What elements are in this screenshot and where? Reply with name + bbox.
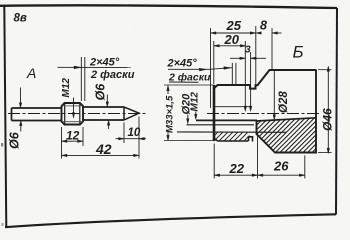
svg-text:A: A: [26, 65, 36, 81]
svg-text:42: 42: [95, 141, 112, 157]
border frame left: [4, 6, 6, 227]
centerline of part Б: [207, 113, 321, 115]
hatching of threaded section: [214, 132, 250, 141]
svg-text:M33×1,5: M33×1,5: [165, 95, 176, 133]
dimension M33x1.5: [165, 85, 176, 140]
border frame bottom: [5, 214, 336, 227]
svg-text:2×45°: 2×45°: [167, 58, 198, 70]
svg-text:10: 10: [128, 127, 141, 139]
dimension 20: [214, 32, 246, 85]
svg-text:Ø46: Ø46: [321, 108, 335, 131]
svg-text:M12: M12: [190, 92, 201, 112]
bore step line: [177, 131, 287, 133]
svg-text:25: 25: [226, 18, 242, 33]
dimension 8: [256, 19, 282, 71]
thread minor lines: [62, 106, 83, 122]
svg-text:8: 8: [260, 19, 267, 33]
dimension Ø6 left: [8, 88, 23, 150]
svg-text:Ø6: Ø6: [8, 131, 22, 149]
part Б bottom thread edge: [218, 137, 253, 142]
dimension 3 with extension leaders: [230, 41, 266, 112]
svg-text:2 фаски: 2 фаски: [90, 69, 135, 81]
hatching of right section wedge: [257, 118, 317, 153]
part A left shaft Ø6: [12, 108, 62, 121]
dimension 26: [258, 156, 305, 179]
dimension Ø46: [318, 66, 335, 154]
part A cone tip: [124, 107, 139, 120]
label M12 with leader: [61, 78, 75, 118]
svg-text:22: 22: [229, 161, 245, 176]
dimension 22: [214, 134, 257, 179]
thread chamfer lines: [65, 103, 80, 124]
bore edge line (Ø28): [257, 118, 317, 121]
part A right shaft Ø6: [83, 107, 124, 120]
svg-text:12: 12: [66, 129, 80, 143]
svg-text:M12: M12: [61, 78, 72, 98]
chamfer callout 2x45 part A: [58, 57, 135, 102]
label Ø28 with leader: [273, 71, 290, 121]
part Б left face: [213, 85, 216, 141]
border frame right: [336, 8, 337, 215]
svg-text:Ø28: Ø28: [278, 91, 290, 113]
svg-text:3: 3: [245, 45, 251, 56]
label Ø20 with leader: [181, 93, 193, 124]
hole line M12 lower thick: [196, 119, 257, 121]
ink speck left margin 1: [1, 143, 3, 147]
ink speck left margin 2: [2, 223, 4, 226]
part A thread M12 body: [62, 103, 84, 125]
dimension Ø6 right: [94, 83, 110, 129]
svg-text:Б: Б: [293, 43, 304, 62]
border frame top: [0, 5, 337, 8]
svg-text:8в: 8в: [14, 13, 27, 25]
dimension 12: [62, 127, 84, 159]
label M12 with leader: [190, 92, 201, 120]
svg-text:2×45°: 2×45°: [89, 57, 120, 69]
svg-text:20: 20: [224, 32, 240, 47]
dimension 25: [211, 18, 256, 108]
part Б outline: [214, 70, 317, 89]
M33 extension lines: [164, 84, 213, 86]
hole line M12 upper: [214, 106, 250, 108]
svg-text:Ø6: Ø6: [94, 83, 108, 101]
dimension 10: [116, 117, 147, 159]
hole line Ø20: [187, 124, 255, 126]
chamfer callout 2x45 part Б: [167, 58, 236, 85]
centerline of part A: [8, 113, 146, 115]
svg-text:26: 26: [273, 159, 289, 174]
dimension 42: [62, 141, 140, 157]
